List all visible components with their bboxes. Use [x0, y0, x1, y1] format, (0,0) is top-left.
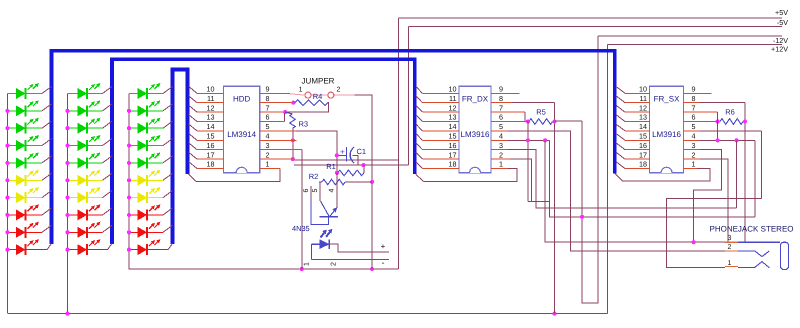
svg-text:8: 8: [266, 94, 270, 103]
LED D210: [68, 239, 101, 255]
svg-text:FR_DX: FR_DX: [462, 95, 489, 104]
LED D21: [68, 83, 101, 99]
opto 4N35 LED: [312, 229, 333, 260]
phonejack pin 2: [725, 251, 769, 257]
junction pin4 x545: [543, 138, 547, 142]
svg-text:17: 17: [449, 150, 457, 159]
wire crossbar up to FR_SX pin4 rail: [754, 140, 756, 217]
resistor R2: [322, 179, 345, 185]
anode bus column 2: [67, 94, 69, 314]
svg-text:7: 7: [266, 103, 270, 112]
wire cathode D26: [87, 173, 112, 180]
svg-text:15: 15: [449, 132, 457, 141]
junction pin2 tap: [291, 157, 295, 161]
op-ic HDD box: [224, 86, 260, 173]
svg-text:4: 4: [329, 188, 336, 192]
svg-text:LM3916: LM3916: [652, 130, 681, 139]
pin 17 FR_DX: [416, 152, 459, 159]
LED D13: [7, 118, 39, 134]
wire cathode D39: [147, 225, 173, 232]
svg-text:4N35: 4N35: [292, 224, 310, 233]
svg-text:15: 15: [207, 132, 215, 141]
junction +5V rail jumper drop: [370, 267, 374, 271]
pin 10 FR_SX: [616, 86, 650, 93]
pin 14 FR_DX: [416, 124, 459, 131]
svg-text:1: 1: [728, 260, 732, 267]
wire HDD pin3 to +5V bottom rail: [260, 149, 302, 151]
pin 15 FR_SX: [616, 133, 650, 140]
svg-text:3: 3: [499, 141, 503, 150]
pin 15 FR_DX: [416, 133, 459, 140]
wire R2 right to jumper drop: [345, 181, 372, 183]
junction column 1 row 2: [5, 109, 9, 113]
junction column 2 row 7: [65, 196, 69, 200]
wire R5 right to -12V loop: [555, 120, 583, 122]
svg-text:11: 11: [449, 94, 456, 103]
capacitor C1: [337, 147, 363, 165]
svg-text:9: 9: [692, 85, 696, 94]
LED D19: [7, 222, 39, 238]
svg-text:13: 13: [207, 113, 215, 122]
wire R5 left to pin4 rail: [527, 122, 529, 202]
junction pin4 x527: [526, 138, 530, 142]
junction column 3 row 5: [127, 161, 131, 165]
wire cathode D14: [26, 139, 52, 146]
wire FR_SX pin8: [684, 102, 700, 104]
wire jumper pin2 to V+ rail: [335, 95, 373, 269]
op-ic FR_DX box: [459, 86, 491, 173]
junction column 1 row 4: [5, 143, 9, 147]
svg-text:2: 2: [728, 244, 732, 251]
wire V- rail: [294, 164, 409, 166]
wire crossjog pin2: [528, 201, 550, 203]
anode bus column 1: [6, 94, 8, 314]
wire HDD pin1 wrap: [260, 168, 280, 170]
svg-text:18: 18: [449, 160, 457, 169]
power rail -12V: [598, 35, 782, 37]
wire cathode D29: [87, 225, 112, 232]
wire pin4 drop to crossbar h208: [736, 140, 738, 208]
power rail -5V: [409, 25, 782, 27]
svg-text:5: 5: [499, 122, 503, 131]
opto 4N35 transistor: [311, 173, 338, 225]
svg-text:2: 2: [266, 150, 270, 159]
svg-text:2: 2: [499, 150, 503, 159]
pin 10 HDD: [189, 86, 224, 93]
svg-text:+: +: [340, 148, 345, 157]
LED D31: [129, 83, 160, 99]
svg-text:14: 14: [449, 122, 457, 131]
svg-text:5: 5: [692, 122, 696, 131]
wire FR_DX pin9 stub: [491, 92, 520, 94]
wire FR_DX pin5 to phonejack pin2: [491, 130, 508, 132]
wire FR_SX pin5 drop: [761, 131, 763, 199]
wire cathode D21: [87, 87, 112, 94]
svg-text:16: 16: [449, 141, 457, 150]
junction column 2 row 8: [65, 213, 69, 217]
junction +5V rail pin3: [300, 267, 304, 271]
svg-text:18: 18: [207, 160, 215, 169]
LED D17: [7, 187, 39, 203]
svg-text:17: 17: [639, 150, 647, 159]
wire pin8 drop: [744, 103, 746, 243]
wire cathode D32: [147, 104, 173, 111]
svg-text:LM3914: LM3914: [227, 130, 256, 139]
LED D32: [129, 100, 160, 116]
svg-text:12: 12: [207, 103, 215, 112]
LED D18: [7, 204, 39, 220]
junction bottom rail column2: [65, 312, 69, 316]
wire HDD pin8: [260, 102, 294, 104]
pin 11 FR_DX: [416, 96, 459, 103]
svg-text:1: 1: [692, 160, 696, 169]
junction column 3 row 8: [127, 213, 131, 217]
junction column 1 row 8: [5, 213, 9, 217]
wire FR_DX pin1 wrap: [491, 168, 508, 170]
wire cathode D23: [87, 121, 112, 128]
pin 18 FR_DX: [416, 162, 459, 169]
phonejack pin 1: [725, 262, 769, 268]
svg-text:1: 1: [266, 160, 270, 169]
junction R5 right: [552, 119, 556, 123]
wire cathode D25: [87, 156, 112, 163]
svg-text:R3: R3: [299, 120, 309, 129]
LED D27: [68, 187, 101, 203]
svg-text:10: 10: [449, 85, 457, 94]
wire +12V bottom rail: [8, 313, 607, 315]
junction column 2 row 4: [65, 143, 69, 147]
svg-text:9: 9: [266, 85, 270, 94]
pin 13 FR_SX: [616, 115, 650, 122]
wire +12V vertical drop: [606, 45, 608, 314]
junction pin4 tap: [291, 138, 295, 142]
wire R1 right up: [363, 165, 365, 173]
wire FR_DX pin7: [491, 111, 525, 113]
junction FR_SX pin4 x736: [735, 138, 739, 142]
wire cathode D38: [147, 208, 173, 215]
svg-text:R5: R5: [536, 108, 546, 117]
wire cathode D18: [26, 208, 52, 215]
junction pin7 R3: [283, 110, 287, 114]
wire cathode D15: [26, 156, 52, 163]
junction bottom rail x555: [552, 312, 556, 316]
phonejack body: [780, 242, 788, 269]
wire HDD pin6 up to pin7: [260, 121, 285, 123]
svg-text:LM3916: LM3916: [461, 130, 490, 139]
junction R6 right: [743, 119, 747, 123]
wire cathode D28: [87, 208, 112, 215]
wire HDD pin5 signal: [260, 130, 296, 132]
junction pin8 R4: [291, 101, 295, 105]
svg-text:3: 3: [266, 141, 270, 150]
pin 18 FR_SX: [616, 162, 650, 169]
svg-text:13: 13: [639, 113, 647, 122]
LED D310: [129, 239, 160, 255]
junction column 3 row 4: [127, 143, 131, 147]
wire signal to R1/C1: [296, 131, 337, 208]
resistor R6: [720, 119, 743, 125]
svg-text:4: 4: [692, 132, 696, 141]
svg-text:6: 6: [303, 188, 310, 192]
wire FR_SX pin5: [684, 130, 700, 132]
wire HDD pin9 to jumper: [260, 92, 290, 94]
svg-text:6: 6: [266, 113, 270, 122]
svg-text:PHONEJACK STEREO: PHONEJACK STEREO: [709, 224, 793, 233]
wire opto LED cathode to + terminal: [329, 244, 389, 252]
wire +5V vertical drop: [397, 18, 399, 269]
junction column 3 row 9: [127, 230, 131, 234]
svg-text:11: 11: [207, 94, 214, 103]
LED D37: [129, 187, 160, 203]
wire cathode D36: [147, 173, 173, 180]
op-ic FR_SX box: [650, 86, 684, 173]
wire cathode D33: [147, 121, 173, 128]
wire FR_SX pin3 to phonejack pin3: [684, 149, 700, 151]
svg-text:3: 3: [728, 235, 732, 242]
svg-text:2: 2: [337, 87, 341, 94]
junction column 1 row 6: [5, 178, 9, 182]
LED D22: [68, 100, 101, 116]
wire cathode D37: [147, 191, 173, 198]
LED D11: [7, 83, 39, 99]
svg-text:15: 15: [639, 132, 647, 141]
junction column 2 row 6: [65, 178, 69, 182]
svg-text:5: 5: [312, 188, 319, 192]
pin 11 FR_SX: [616, 96, 650, 103]
svg-text:6: 6: [692, 113, 696, 122]
LED D25: [68, 152, 101, 168]
svg-text:4: 4: [499, 132, 503, 141]
junction column 2 row 10: [65, 248, 69, 252]
svg-text:1: 1: [299, 87, 303, 94]
LED D35: [129, 152, 160, 168]
junction column 1 row 7: [5, 196, 9, 200]
pin 17 HDD: [189, 152, 224, 159]
wire cathode D210: [87, 244, 112, 250]
wire cathode D310: [147, 244, 173, 250]
svg-text:6: 6: [499, 113, 503, 122]
junction R1 left: [335, 171, 339, 175]
wire FR_DX pin4: [491, 139, 508, 141]
pin 12 FR_DX: [416, 105, 459, 112]
svg-text:2: 2: [692, 150, 696, 159]
wire FR_DX pin6: [491, 121, 528, 123]
junction R6 left: [716, 119, 720, 123]
junction column 3 row 2: [127, 109, 131, 113]
wire cathode D19: [26, 225, 52, 232]
svg-text:14: 14: [639, 122, 647, 131]
svg-text:1: 1: [304, 262, 311, 266]
pin 14 HDD: [189, 124, 224, 131]
pin 15 HDD: [189, 133, 224, 140]
junction column 3 row 7: [127, 196, 131, 200]
resistor R3: [285, 112, 292, 114]
wire cathode D11: [26, 87, 52, 94]
pin 16 HDD: [189, 143, 224, 150]
svg-text:3: 3: [692, 141, 696, 150]
wire HDD pin4: [260, 139, 297, 141]
LED D33: [129, 118, 160, 134]
pin 11 HDD: [189, 96, 224, 103]
wire cathode D27: [87, 191, 112, 198]
junction column 1 row 9: [5, 230, 9, 234]
junction column 1 row 3: [5, 126, 9, 130]
pin 12 FR_SX: [616, 105, 650, 112]
svg-text:7: 7: [692, 103, 696, 112]
svg-text:16: 16: [207, 141, 215, 150]
LED D15: [7, 152, 39, 168]
wire HDD pin7: [260, 111, 285, 113]
wire cathode D13: [26, 121, 52, 128]
LED D28: [68, 204, 101, 220]
svg-text:+: +: [381, 242, 386, 251]
junction column 3 row 10: [127, 248, 131, 252]
svg-text:10: 10: [639, 85, 647, 94]
junction column 2 row 9: [65, 230, 69, 234]
wire cathode D34: [147, 139, 173, 146]
anode bus column 3: [129, 94, 398, 270]
junction jumper drop R2: [370, 180, 374, 184]
resistor R1: [338, 170, 364, 176]
power rail +5V: [398, 17, 782, 19]
wire FR_SX pin4 rail: [684, 139, 700, 141]
resistor R4: [295, 100, 328, 106]
pin 13 FR_DX: [416, 115, 459, 122]
wire HDD pin2: [260, 158, 293, 160]
pin 16 FR_SX: [616, 143, 650, 150]
pin 16 FR_DX: [416, 143, 459, 150]
svg-text:HDD: HDD: [233, 95, 251, 104]
svg-text:+5V: +5V: [775, 8, 788, 17]
wire FR_DX pin8 to R5 drop: [491, 102, 512, 104]
wire FR_SX pin7: [684, 111, 718, 113]
svg-text:R6: R6: [725, 108, 735, 117]
LED D23: [68, 118, 101, 134]
bus B2 LED column2 to FR_DX: [112, 59, 415, 244]
junction column 1 row 5: [5, 161, 9, 165]
wire pin4 drop to crossbar: [550, 140, 755, 217]
pin 17 FR_SX: [616, 152, 650, 159]
svg-text:2: 2: [331, 262, 338, 266]
wire -5V vertical drop: [408, 26, 410, 165]
svg-text:JUMPER: JUMPER: [302, 77, 335, 86]
LED D12: [7, 100, 39, 116]
wire cathode D110: [26, 244, 52, 250]
wire phonejack pin1 wrap chain: [667, 199, 762, 268]
svg-text:7: 7: [499, 103, 503, 112]
pin 12 HDD: [189, 105, 224, 112]
svg-text:4: 4: [266, 132, 270, 141]
wire FR_SX pin2 drop: [684, 158, 700, 160]
LED D110: [7, 239, 39, 255]
wire -12V vertical drop and U loop: [582, 36, 598, 303]
svg-text:12: 12: [449, 103, 457, 112]
wire pin4 drop to phonejack pin3: [545, 140, 725, 242]
LED D14: [7, 135, 39, 151]
junction phonejack pin3: [692, 240, 696, 244]
LED D26: [68, 170, 101, 186]
svg-text:R4: R4: [313, 92, 323, 101]
LED D36: [129, 170, 160, 186]
wire FR_SX pin1 wrap: [684, 168, 697, 170]
junction column 3 row 3: [127, 126, 131, 130]
LED D29: [68, 222, 101, 238]
wire FR_SX pin9 stub: [684, 92, 712, 94]
pin 14 FR_SX: [616, 124, 650, 131]
svg-text:13: 13: [449, 113, 457, 122]
junction column 1 row 10: [5, 248, 9, 252]
pin 18 HDD: [189, 162, 224, 169]
svg-text:10: 10: [207, 85, 215, 94]
wire cathode D35: [147, 156, 173, 163]
junction R5 left: [526, 119, 530, 123]
wire FR_DX pin3 crossbar: [491, 149, 508, 151]
svg-text:18: 18: [639, 160, 647, 169]
pin 13 HDD: [189, 115, 224, 122]
LED D38: [129, 204, 160, 220]
svg-text:C1: C1: [357, 147, 367, 156]
wire R5 right drop to bottom rail: [554, 103, 556, 314]
wire opto LED anode to - terminal: [312, 258, 390, 260]
svg-text:12: 12: [639, 103, 647, 112]
svg-text:+12V: +12V: [771, 45, 788, 54]
phonejack pin 3: [725, 241, 780, 243]
wire R2 left to base: [319, 181, 322, 183]
svg-text:R2: R2: [309, 172, 319, 181]
wire cathode D24: [87, 139, 112, 146]
wire R4 wrap to pin7 rail: [285, 103, 328, 112]
junction C1 left: [335, 153, 339, 157]
LED D16: [7, 170, 39, 186]
wire FR_SX pin6: [684, 121, 718, 123]
LED D24: [68, 135, 101, 151]
junction column 2 row 3: [65, 126, 69, 130]
resistor R5: [529, 119, 553, 125]
svg-text:9: 9: [499, 85, 503, 94]
junction column 2 row 2: [65, 109, 69, 113]
svg-text:8: 8: [692, 94, 696, 103]
LED D34: [129, 135, 160, 151]
wire cathode D16: [26, 173, 52, 180]
wire cathode D31: [147, 87, 173, 94]
wire FR_DX pin2: [491, 158, 510, 160]
svg-text:14: 14: [207, 122, 215, 131]
bus B1 LED column1 to FR_SX: [52, 51, 615, 244]
wire R3 bottom to V- rail corner: [293, 128, 399, 160]
LED D39: [129, 222, 160, 238]
svg-text:5: 5: [266, 122, 270, 131]
svg-text:-: -: [382, 258, 385, 268]
junction crossbar x582: [580, 215, 584, 219]
svg-text:17: 17: [207, 150, 215, 159]
wire cathode D17: [26, 191, 52, 198]
pin 10 FR_DX: [416, 86, 459, 93]
wire R6 left to pin4 rail: [717, 122, 719, 141]
wire cathode D22: [87, 104, 112, 111]
svg-text:16: 16: [639, 141, 647, 150]
jumper JP1: [305, 92, 334, 98]
power rail +12V: [607, 44, 782, 46]
svg-text:R1: R1: [326, 162, 336, 171]
svg-text:1: 1: [499, 160, 503, 169]
svg-text:8: 8: [499, 94, 503, 103]
svg-text:FR_SX: FR_SX: [654, 95, 680, 104]
svg-text:11: 11: [640, 94, 647, 103]
junction C1 R1 right: [361, 163, 365, 167]
wire cathode D12: [26, 104, 52, 111]
junction FR_SX pin4 x717: [716, 138, 720, 142]
svg-text:-5V: -5V: [777, 18, 788, 27]
